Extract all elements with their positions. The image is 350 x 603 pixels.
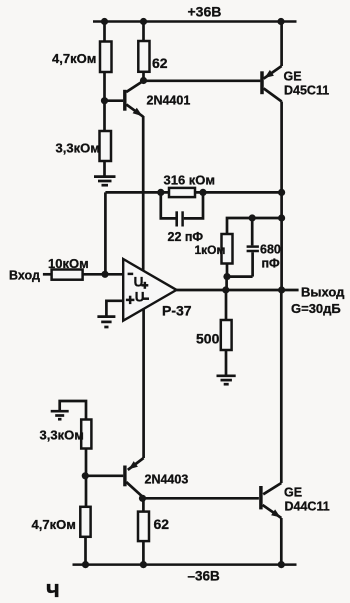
svg-text:500: 500 [196,331,220,347]
svg-text:4,7кОм: 4,7кОм [32,517,76,532]
svg-text:1кОм: 1кОм [195,243,226,257]
svg-text:2N4403: 2N4403 [145,473,189,487]
svg-text:Вход: Вход [9,269,40,283]
svg-text:пФ: пФ [262,257,281,271]
svg-text:U: U [135,289,145,304]
svg-text:2N4401: 2N4401 [147,94,191,108]
svg-text:+36В: +36В [188,4,222,20]
svg-text:4,7кОм: 4,7кОм [52,51,96,66]
svg-text:ч: ч [46,576,60,603]
svg-text:10кОм: 10кОм [48,256,89,271]
svg-text:22 пФ: 22 пФ [168,230,204,244]
svg-text:GE: GE [284,486,302,500]
svg-text:D45C11: D45C11 [284,84,329,98]
svg-text:62: 62 [152,55,168,71]
svg-text:3,3кОм: 3,3кОм [56,141,100,156]
svg-text:3,3кОм: 3,3кОм [40,428,84,443]
svg-text:GE: GE [284,70,302,84]
svg-text:U: U [134,274,144,289]
svg-text:Р-37: Р-37 [162,303,192,319]
svg-text:680: 680 [260,243,281,257]
svg-text:62: 62 [154,516,170,532]
svg-text:–36В: –36В [188,569,221,584]
svg-text:D44C11: D44C11 [285,500,330,514]
svg-text:Выход: Выход [301,285,345,300]
svg-text:316 кОм: 316 кОм [164,173,216,188]
svg-text:G=30дБ: G=30дБ [291,301,341,316]
